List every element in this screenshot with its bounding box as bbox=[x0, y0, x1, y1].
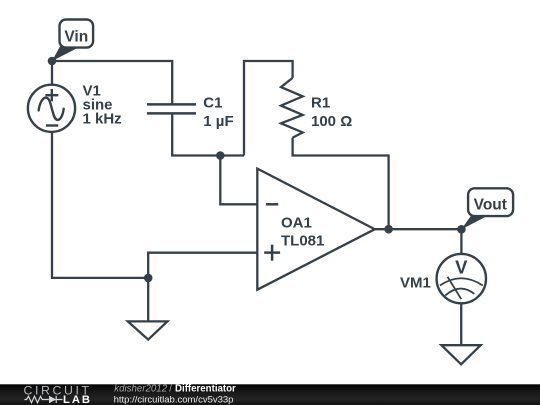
node inverting input junction bbox=[216, 151, 225, 160]
svg-text:VM1: VM1 bbox=[400, 274, 431, 291]
svg-text:V: V bbox=[455, 257, 468, 278]
wire R1 top loop from inverting node bbox=[244, 61, 293, 156]
wire ground node to ground 1 bbox=[147, 278, 149, 321]
svg-text:TL081: TL081 bbox=[281, 232, 324, 249]
svg-text:kdisher2012: kdisher2012 bbox=[114, 383, 167, 394]
voltmeter VM1 bbox=[437, 254, 486, 303]
wire V1 bottom to ground node bbox=[52, 132, 148, 278]
wire Vout node to VM1 top bbox=[460, 229, 462, 254]
node feedback output junction bbox=[384, 225, 393, 234]
wire C1 bottom to inverting node bbox=[172, 114, 244, 156]
ground 2 (voltmeter) bbox=[441, 345, 480, 364]
svg-text:/: / bbox=[169, 383, 172, 394]
node Vin junction bbox=[48, 57, 57, 66]
footer bar bbox=[0, 384, 540, 405]
svg-text:http://circuitlab.com/cv5v33p: http://circuitlab.com/cv5v33p bbox=[114, 394, 234, 405]
value label C1 1 uF bbox=[203, 94, 233, 129]
svg-text:100 Ω: 100 Ω bbox=[311, 113, 352, 130]
wire V1 top bbox=[51, 61, 53, 85]
op-amp OA1 bbox=[257, 169, 375, 290]
wire non-inverting input bbox=[148, 253, 257, 278]
svg-text:Vout: Vout bbox=[474, 196, 507, 213]
value label V1 sine 1 kHz bbox=[83, 83, 122, 128]
wire op-amp output to Vout node bbox=[375, 228, 462, 230]
wire Vin node to C1 top bbox=[52, 61, 172, 104]
svg-text:LAB: LAB bbox=[63, 394, 92, 405]
value label R1 100 ohm bbox=[311, 94, 352, 130]
svg-text:1 µF: 1 µF bbox=[203, 113, 233, 130]
node ground junction bbox=[144, 274, 153, 283]
svg-text:C1: C1 bbox=[203, 94, 222, 111]
capacitor C1 bbox=[147, 104, 196, 113]
resistor R1 bbox=[281, 78, 303, 138]
svg-text:1 kHz: 1 kHz bbox=[83, 111, 122, 128]
logo resistor-diode glyph bbox=[25, 396, 63, 403]
value label OA1 TL081 bbox=[281, 214, 324, 249]
svg-text:Differentiator: Differentiator bbox=[175, 383, 236, 394]
svg-text:OA1: OA1 bbox=[281, 214, 312, 231]
wire inverting node to op-amp minus input bbox=[220, 156, 257, 205]
net label Vin bbox=[52, 20, 93, 62]
svg-text:Vin: Vin bbox=[64, 28, 88, 45]
ground 1 (op-amp non-inverting) bbox=[128, 321, 168, 339]
wire R1 bottom feedback to output bbox=[293, 138, 389, 230]
node Vout junction bbox=[457, 225, 466, 234]
svg-text:R1: R1 bbox=[311, 94, 330, 111]
voltage source V1 bbox=[28, 85, 75, 132]
wire VM1 bottom to ground 2 bbox=[460, 303, 462, 345]
net label Vout bbox=[461, 188, 513, 229]
